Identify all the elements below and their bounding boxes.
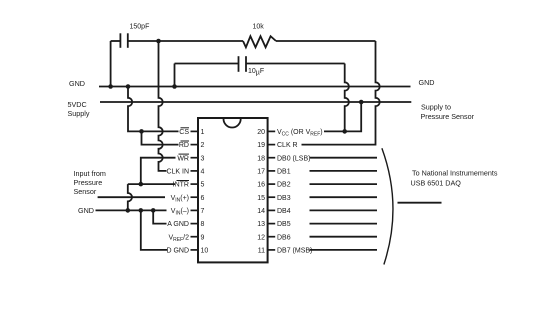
svg-text:DB5: DB5 bbox=[277, 221, 291, 228]
wire: vertical from 10k down to CLK R (hops GND and 5VDC rails) bbox=[302, 41, 380, 145]
wire: DB0 data line bbox=[310, 157, 378, 159]
pin labels right bbox=[277, 129, 323, 255]
svg-text:2: 2 bbox=[201, 142, 205, 149]
svg-text:13: 13 bbox=[257, 221, 265, 228]
wire: CS pin wire bbox=[142, 130, 179, 132]
svg-text:20: 20 bbox=[257, 129, 265, 136]
svg-text:9: 9 bbox=[201, 234, 205, 241]
svg-text:GND: GND bbox=[419, 78, 435, 87]
svg-text:DB7 (MSB): DB7 (MSB) bbox=[277, 248, 312, 255]
svg-text:CLK IN: CLK IN bbox=[166, 169, 189, 176]
wire: RD pin wire bbox=[142, 131, 179, 144]
wire: CS/RD ground vertical (hops 5VDC rail) bbox=[128, 87, 142, 132]
svg-text:Input from: Input from bbox=[74, 169, 106, 178]
wire: INTR pin wire bbox=[128, 183, 175, 185]
svg-text:DB4: DB4 bbox=[277, 208, 291, 215]
wire: DB7 data line bbox=[310, 249, 378, 251]
svg-text:DB6: DB6 bbox=[277, 234, 291, 241]
overline RD bbox=[181, 140, 190, 142]
capacitor C1 150pF bbox=[111, 33, 159, 48]
wire: DB3 data line bbox=[310, 196, 378, 198]
wire: clock vertical from RC junction to CLK IN (hops 5VDC, CS, RD, WR) bbox=[159, 41, 167, 171]
svg-text:Supply to: Supply to bbox=[421, 103, 451, 112]
wire: Vin(+) input wire bbox=[98, 196, 165, 198]
wire: bracket to DAQ label bbox=[398, 202, 442, 204]
wire: DB2 data line bbox=[310, 183, 378, 185]
svg-text:Supply: Supply bbox=[68, 109, 90, 118]
pin numbers left 1-10 bbox=[201, 129, 209, 255]
svg-text:15: 15 bbox=[257, 195, 265, 202]
svg-text:150pF: 150pF bbox=[130, 24, 150, 31]
bus bracket to DAQ bbox=[382, 148, 393, 264]
svg-text:17: 17 bbox=[257, 169, 265, 176]
wire: 5VDC supply rail bbox=[100, 101, 411, 103]
wire: DB5 data line bbox=[310, 223, 378, 225]
svg-text:19: 19 bbox=[257, 142, 265, 149]
svg-text:VCC (OR VREF): VCC (OR VREF) bbox=[277, 129, 323, 138]
svg-text:CLK R: CLK R bbox=[277, 142, 298, 149]
wire: A GND pin wire bbox=[153, 210, 166, 223]
svg-text:INTR: INTR bbox=[173, 182, 189, 189]
svg-text:16: 16 bbox=[257, 182, 265, 189]
svg-text:To National Instrumements: To National Instrumements bbox=[412, 169, 498, 178]
svg-text:USB 6501 DAQ: USB 6501 DAQ bbox=[411, 179, 462, 188]
node: INTR ground junction bbox=[126, 208, 131, 213]
wire: bottom GND to Vin(-) bbox=[96, 209, 167, 211]
node: 5VDC rail / Vcc vertical bbox=[359, 100, 364, 105]
node: CS/RD junction bbox=[139, 129, 144, 134]
svg-text:A GND: A GND bbox=[167, 221, 189, 228]
svg-text:VREF/2: VREF/2 bbox=[168, 234, 189, 243]
wire: junction to 10k resistor bbox=[159, 40, 244, 42]
svg-text:Pressure: Pressure bbox=[74, 178, 103, 187]
svg-text:4: 4 bbox=[201, 169, 205, 176]
svg-text:5VDC: 5VDC bbox=[68, 100, 87, 109]
pin stubs right bbox=[268, 131, 276, 250]
svg-text:VIN(+): VIN(+) bbox=[171, 195, 189, 204]
overline CS bbox=[181, 127, 190, 129]
wire: 10k to right corner bbox=[276, 40, 376, 42]
wire: DB4 data line bbox=[310, 209, 378, 211]
wire: INTR to bottom GND (hops Vin+ wire) bbox=[128, 184, 132, 210]
wire: DB1 data line bbox=[310, 170, 378, 172]
IC notch bbox=[224, 119, 241, 128]
pin stubs left bbox=[191, 131, 199, 250]
svg-text:DB0 (LSB): DB0 (LSB) bbox=[277, 155, 310, 162]
svg-text:CS: CS bbox=[179, 129, 189, 136]
svg-text:VIN(–): VIN(–) bbox=[171, 208, 189, 217]
svg-text:7: 7 bbox=[201, 208, 205, 215]
node: Vin(-) / A GND junction bbox=[151, 208, 156, 213]
svg-text:8: 8 bbox=[201, 221, 205, 228]
svg-text:Pressure Sensor: Pressure Sensor bbox=[421, 112, 475, 121]
svg-text:DB3: DB3 bbox=[277, 195, 291, 202]
svg-text:DB1: DB1 bbox=[277, 169, 291, 176]
node: clock RC junction bbox=[156, 39, 161, 44]
overline INTR bbox=[177, 180, 190, 182]
node: GND rail / 10uF left leg bbox=[172, 84, 177, 89]
node: Vin(-) / D GND junction bbox=[139, 208, 144, 213]
svg-text:Sensor: Sensor bbox=[74, 187, 97, 196]
pin label CS (pin 1, overline) bbox=[166, 129, 189, 255]
wire: top GND rail bbox=[99, 86, 411, 88]
resistor R1 10k bbox=[243, 36, 276, 47]
svg-text:18: 18 bbox=[257, 155, 265, 162]
wire: D GND pin wire bbox=[141, 210, 168, 250]
node: GND rail / CS-RD vertical bbox=[126, 84, 131, 89]
svg-text:3: 3 bbox=[201, 155, 205, 162]
wire: Vcc pin 20 to 5VDC rail bbox=[324, 102, 361, 131]
svg-text:10µF: 10µF bbox=[248, 68, 264, 77]
svg-text:5: 5 bbox=[201, 182, 205, 189]
node: GND rail / 150pF left leg bbox=[108, 84, 113, 89]
capacitor C2 10uF bbox=[175, 56, 345, 72]
svg-text:11: 11 bbox=[258, 248, 265, 255]
svg-text:D GND: D GND bbox=[166, 248, 189, 255]
svg-text:GND: GND bbox=[69, 79, 85, 88]
svg-text:RD: RD bbox=[179, 142, 189, 149]
svg-text:WR: WR bbox=[177, 155, 189, 162]
node: 10uF leg on Vcc wire bbox=[342, 129, 347, 134]
svg-text:10: 10 bbox=[201, 248, 209, 255]
svg-text:1: 1 bbox=[201, 129, 205, 136]
svg-text:10k: 10k bbox=[253, 24, 265, 31]
wire: DB6 data line bbox=[310, 236, 378, 238]
wire: 10uF right leg down to Vcc wire (hops GND and 5VDC rails) bbox=[345, 64, 349, 132]
wire: WR pin wire down to INTR bbox=[141, 158, 176, 184]
pin numbers right 20-11 bbox=[257, 129, 265, 255]
svg-text:6: 6 bbox=[201, 195, 205, 202]
svg-text:12: 12 bbox=[257, 234, 265, 241]
overline WR bbox=[179, 153, 190, 155]
node: WR/INTR junction bbox=[139, 182, 144, 187]
IC U1 ADC body bbox=[198, 118, 268, 262]
svg-text:DB2: DB2 bbox=[277, 182, 291, 189]
svg-text:GND: GND bbox=[78, 206, 94, 215]
wire: 10uF left leg down to GND rail bbox=[174, 64, 176, 87]
svg-text:14: 14 bbox=[257, 208, 265, 215]
wire: 150pF left leg down to GND rail bbox=[110, 41, 112, 87]
